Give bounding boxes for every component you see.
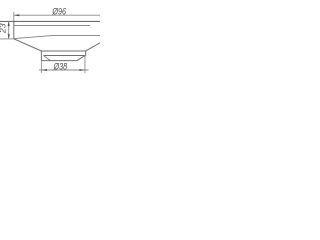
arrowhead down of 23	[8, 34, 10, 39]
lamp face chamfer left	[44, 56, 51, 61]
dimension line D38	[39, 69, 89, 71]
ceiling line sloped	[14, 36, 100, 39]
fixture left edge	[13, 21, 15, 38]
arrowhead left of D38	[41, 69, 47, 71]
extension line left of D38	[40, 61, 42, 73]
extension line bottom of 23	[0, 38, 14, 40]
lamp face bottom	[41, 60, 77, 62]
flange top line	[0, 20, 100, 22]
extension line left (top)	[13, 12, 15, 22]
flange second line	[14, 25, 90, 27]
svg-text:23: 23	[0, 23, 8, 34]
arrowhead up of 23	[8, 21, 10, 26]
cone right side	[86, 43, 100, 51]
svg-text:Ø96: Ø96	[52, 7, 67, 17]
lamp face chamfer right	[77, 56, 85, 61]
svg-text:Ø38: Ø38	[53, 62, 68, 72]
background	[0, 0, 100, 100]
arrowhead right of D38	[79, 69, 85, 71]
cup right wall	[85, 51, 87, 56]
arrowhead left of D96 dimension	[14, 14, 19, 16]
cone left side	[14, 39, 42, 51]
dimension line D96	[14, 14, 100, 16]
cup top line	[41, 50, 86, 52]
cup left wall	[40, 51, 42, 61]
cup bottom line	[44, 55, 85, 57]
dimension 23 vertical line	[8, 21, 10, 39]
extension line right of D38	[84, 56, 86, 73]
